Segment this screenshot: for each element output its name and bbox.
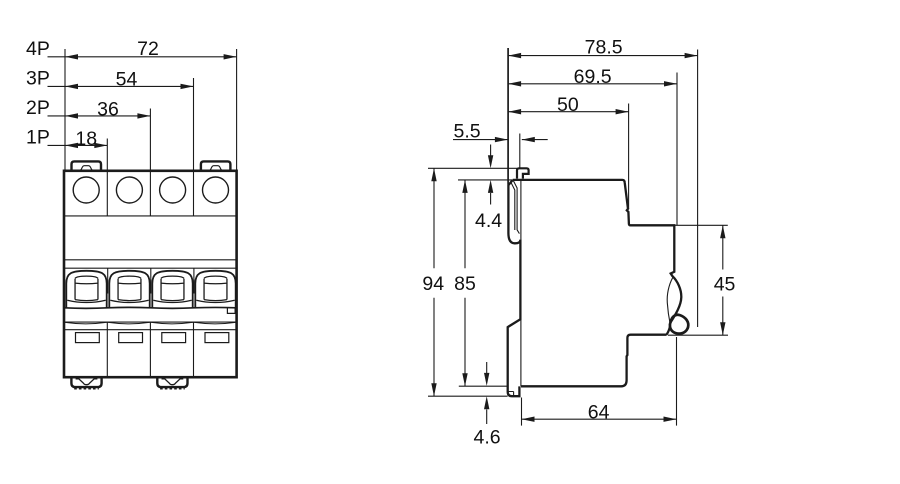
extension line 72 / body right [236, 49, 238, 171]
svg-text:4.4: 4.4 [475, 210, 502, 232]
horizontal line above toggles [64, 267, 237, 269]
toggle tip knob [670, 315, 688, 334]
dimension 4.6 arrows [486, 362, 488, 373]
dimension 5.5 lines and arrows [453, 139, 508, 141]
lower face line [64, 329, 237, 331]
svg-text:5.5: 5.5 [454, 121, 481, 143]
pole divider lines toggle row [108, 268, 194, 293]
bottom clip tab right [157, 378, 187, 388]
toggle knob tail to bottom step [666, 327, 670, 335]
svg-text:94: 94 [422, 273, 444, 295]
svg-text:1P: 1P [26, 127, 50, 149]
dimension 4.4 arrows [490, 145, 492, 156]
extension line 54 [193, 78, 195, 171]
svg-text:85: 85 [454, 273, 476, 295]
extension line 69.5 right [676, 73, 678, 226]
dimension 85 line [464, 180, 466, 386]
toggle handle pole 3 [153, 276, 191, 302]
side view main profile [513, 180, 682, 323]
dimension 64 line [522, 418, 677, 420]
svg-text:45: 45 [714, 274, 736, 296]
top mounting tab right inner contour [207, 166, 225, 170]
terminal screw circle pole 2 [116, 177, 142, 203]
svg-text:50: 50 [557, 94, 579, 116]
extension line 36 [149, 109, 151, 171]
DIN clip upper spring [508, 180, 521, 396]
cover seam curved lines per pole [64, 322, 237, 324]
extension line 18 [106, 139, 108, 171]
svg-text:78.5: 78.5 [585, 37, 623, 59]
svg-text:72: 72 [137, 38, 159, 60]
bottom clip tab right inner notch [162, 379, 184, 385]
horizontal line bottom of terminal row [64, 215, 237, 217]
dimension 54 line [48, 85, 194, 87]
svg-text:54: 54 [116, 69, 138, 91]
side view bottom front step [521, 335, 666, 387]
cover seam line [64, 321, 237, 323]
bottom terminal window pole 3 [162, 333, 186, 343]
DIN clip inner contour lines [511, 181, 519, 234]
bottom clip tab left inner notch [76, 379, 98, 385]
dimension 18 line [48, 144, 108, 146]
dimension 4.4 extension top [428, 167, 517, 169]
dimension 69.5 line [508, 83, 677, 85]
svg-text:36: 36 [97, 98, 119, 120]
top mounting tab left inner contour [77, 166, 95, 170]
toggle handle pole 4 [196, 276, 234, 302]
dimension 36 line [48, 115, 151, 117]
bottom clip tab left [71, 378, 101, 388]
toggle arch pole 4 [195, 271, 235, 308]
extension line bottom 94 / 4.6 [428, 395, 508, 397]
extension line body top left [458, 179, 513, 181]
horizontal line mid face upper [64, 259, 237, 261]
terminal screw circle pole 3 [160, 177, 186, 203]
extension line 5.5 right [519, 134, 521, 169]
toggle arch pole 1 [66, 271, 106, 308]
extension line 64 right [676, 337, 678, 426]
extension line 45 bottom [668, 334, 728, 336]
extension line body left [64, 49, 66, 171]
svg-text:4P: 4P [26, 38, 50, 60]
terminal screw circle pole 1 [73, 177, 99, 203]
small step notch right end [227, 308, 235, 314]
extension line 78.5 right [697, 50, 699, 328]
extension line 50 right [628, 104, 630, 210]
toggle lever inner curve [667, 278, 673, 325]
svg-text:4.6: 4.6 [474, 427, 501, 449]
toggle arch pole 2 [109, 271, 149, 308]
top mounting tab left (pole 1) [72, 161, 102, 171]
dimension 45 line [722, 225, 724, 335]
side view top rail hook tab [517, 168, 529, 178]
extension line 45 top [674, 224, 727, 226]
bottom clip tab right serrated edge [160, 388, 185, 390]
bottom clip tab left serrated edge [74, 388, 99, 390]
top mounting tab right (pole 4) [201, 161, 231, 171]
svg-text:3P: 3P [26, 68, 50, 90]
svg-text:64: 64 [588, 401, 610, 423]
extension line 64 left [521, 398, 523, 426]
bottom terminal window pole 2 [119, 333, 143, 343]
front view body outline [64, 171, 237, 377]
DIN clip foot inner step [508, 392, 513, 396]
pole divider lines lower row [107, 322, 193, 376]
bottom terminal window pole 4 [205, 333, 229, 343]
dimension 72 line [48, 56, 237, 58]
svg-text:2P: 2P [26, 97, 50, 119]
dimension 50 line [508, 111, 628, 113]
pole divider lines terminal row [107, 171, 193, 216]
front face step line under toggles [64, 306, 237, 309]
dimension 78.5 line [508, 55, 697, 57]
dimension 94 line [433, 168, 435, 396]
toggle handle pole 1 [67, 276, 105, 302]
extension line clip back [507, 48, 509, 185]
svg-text:69.5: 69.5 [574, 66, 612, 88]
svg-text:18: 18 [75, 128, 97, 150]
toggle arch pole 3 [152, 271, 192, 308]
terminal screw circle pole 4 [203, 177, 229, 203]
bottom terminal window pole 1 [76, 333, 100, 343]
side view back edge of case [520, 180, 522, 386]
toggle handle pole 2 [110, 276, 148, 302]
extension line bottom 85 [459, 385, 508, 387]
